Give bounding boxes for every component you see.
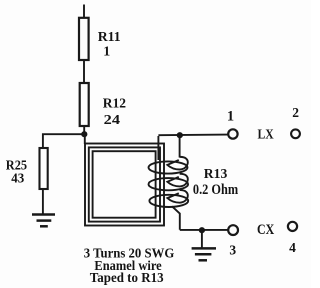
svg-text:LX: LX (258, 126, 274, 141)
svg-text:3: 3 (229, 243, 236, 258)
transformer core 3-turn square loop (85, 144, 164, 226)
svg-text:1: 1 (227, 109, 234, 125)
label LX (258, 126, 274, 141)
wire terminal-1 node down into loop (157, 136, 159, 160)
wire node to R25 (43, 134, 84, 147)
node junction after R12 (81, 131, 87, 137)
label R11 value 1 (98, 30, 121, 59)
wire R11 to R12 (83, 60, 85, 83)
junction dot bottom (199, 227, 205, 233)
resistor R12 (80, 83, 89, 126)
svg-text:R13: R13 (204, 167, 228, 182)
wire node to terminal 1 (158, 134, 227, 137)
note 3 turns 20 SWG enamel wire taped to R13 (84, 247, 175, 287)
label R13 value 0.2 Ohm (193, 167, 238, 198)
svg-text:0.2 Ohm: 0.2 Ohm (193, 182, 238, 198)
terminal 2 circle (291, 129, 300, 138)
svg-text:R11: R11 (98, 30, 121, 45)
label pin 3 (229, 243, 236, 258)
resistor R11 (79, 18, 89, 60)
ground right (192, 248, 216, 260)
wire top feed (83, 5, 85, 19)
coil winding 3 turns on R13 (149, 136, 189, 230)
svg-text:R12: R12 (103, 97, 126, 112)
junction dot top (177, 132, 183, 138)
svg-text:2: 2 (292, 105, 299, 120)
label R12 value 24 (103, 97, 126, 128)
wire R12 to node (83, 126, 85, 134)
svg-text:4: 4 (289, 240, 296, 255)
label pin 2 (292, 105, 299, 120)
terminal 3 circle (228, 225, 238, 235)
svg-text:1: 1 (103, 44, 110, 59)
wire node down to loop (84, 134, 86, 144)
label CX (257, 222, 275, 238)
terminal 1 circle (228, 129, 237, 138)
label pin 4 (289, 240, 296, 255)
wire coil bottom to terminal 3 (180, 229, 229, 231)
svg-text:Taped to R13: Taped to R13 (90, 271, 164, 286)
svg-text:43: 43 (11, 172, 24, 187)
terminal 4 circle (288, 222, 297, 231)
ground left (32, 215, 55, 227)
svg-text:CX: CX (257, 222, 275, 238)
label pin 1 (227, 109, 234, 125)
resistor R25 (40, 148, 48, 189)
svg-text:24: 24 (104, 113, 120, 128)
wire R25 to ground (42, 190, 44, 215)
label R25 value 43 (6, 159, 27, 187)
wire junction to ground right (201, 230, 203, 248)
